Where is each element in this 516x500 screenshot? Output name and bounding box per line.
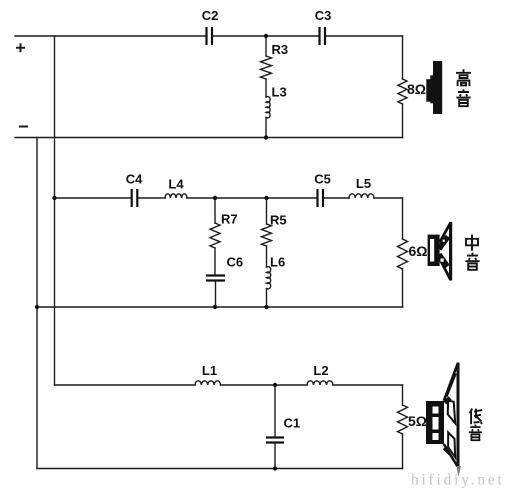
node R7 top (213, 196, 217, 200)
inductor L3 (266, 97, 270, 118)
inductor L6 (267, 267, 271, 289)
inductor L5 (349, 194, 374, 198)
wire right rail tweeter (402, 36, 404, 138)
resistor R7 (210, 223, 220, 248)
speaker icon midrange (428, 222, 453, 281)
node R5 top (264, 196, 268, 200)
node R5 bottom (264, 305, 268, 309)
inductor L1 (195, 381, 221, 385)
wire R5 L6 branch (266, 198, 268, 307)
plus terminal sign (17, 44, 24, 51)
node mid return (35, 305, 39, 309)
svg-text:R3: R3 (272, 42, 289, 57)
svg-text:C6: C6 (227, 255, 244, 270)
resistor 8ohm tweeter (398, 79, 407, 104)
resistor 6ohm mid (398, 239, 408, 269)
wire mid top (55, 197, 403, 199)
capacitor C5 (318, 189, 324, 207)
capacitor C4 (132, 189, 138, 207)
svg-text:hifidiy.net: hifidiy.net (411, 472, 504, 489)
node R3 bottom (264, 135, 268, 139)
svg-text:C3: C3 (315, 8, 332, 23)
inductor L2 (307, 381, 333, 385)
wire - vertical rail (36, 138, 38, 469)
capacitor C3 (320, 27, 326, 45)
resistor R3 (261, 56, 272, 79)
capacitor C2 (207, 27, 213, 45)
node C1 top (273, 383, 277, 387)
svg-text:R5: R5 (270, 213, 287, 228)
inductor L4 (165, 194, 187, 198)
svg-text:C5: C5 (314, 172, 331, 187)
wire low right rail (402, 385, 404, 469)
svg-text:C4: C4 (126, 172, 143, 187)
resistor 5ohm woofer (398, 405, 408, 434)
node R7 bottom (213, 305, 217, 309)
svg-text:L3: L3 (272, 85, 287, 100)
wire low top (55, 384, 403, 386)
svg-text:C1: C1 (284, 416, 301, 431)
node mid feed (52, 196, 56, 200)
svg-text:L1: L1 (202, 363, 217, 378)
resistor R5 (262, 224, 272, 246)
wire + top rail (15, 35, 403, 37)
minus terminal sign (20, 126, 27, 128)
svg-text:R7: R7 (221, 212, 238, 227)
wire + vertical drop (54, 36, 56, 385)
wire R7 C6 branch (214, 198, 217, 307)
svg-text:C2: C2 (202, 8, 219, 23)
svg-text:L6: L6 (270, 255, 285, 270)
capacitor C6 (206, 276, 225, 281)
svg-text:5Ω: 5Ω (408, 413, 427, 429)
svg-text:6Ω: 6Ω (409, 243, 428, 259)
capacitor C1 (266, 438, 284, 443)
wire - rail horizontal (15, 137, 403, 139)
svg-text:L5: L5 (356, 176, 371, 191)
wire mid right rail (402, 198, 404, 307)
svg-text:8Ω: 8Ω (407, 81, 426, 97)
speaker icon woofer (426, 363, 461, 478)
wire mid bottom (37, 306, 403, 308)
label diyin woofer (CJK glyphs drawn) (469, 409, 482, 441)
node R3 top (264, 34, 268, 38)
wire R3 L3 branch (265, 36, 267, 138)
node C1 bottom (273, 466, 277, 470)
wire low bottom (37, 468, 403, 470)
label gaoyin tweeter (CJK glyphs drawn) (456, 69, 471, 106)
speaker icon tweeter (426, 61, 442, 114)
svg-text:L4: L4 (168, 177, 184, 192)
svg-text:L2: L2 (313, 363, 328, 378)
wire C1 branch (274, 385, 276, 469)
label zhongyin midrange (CJK glyphs drawn) (465, 235, 479, 270)
